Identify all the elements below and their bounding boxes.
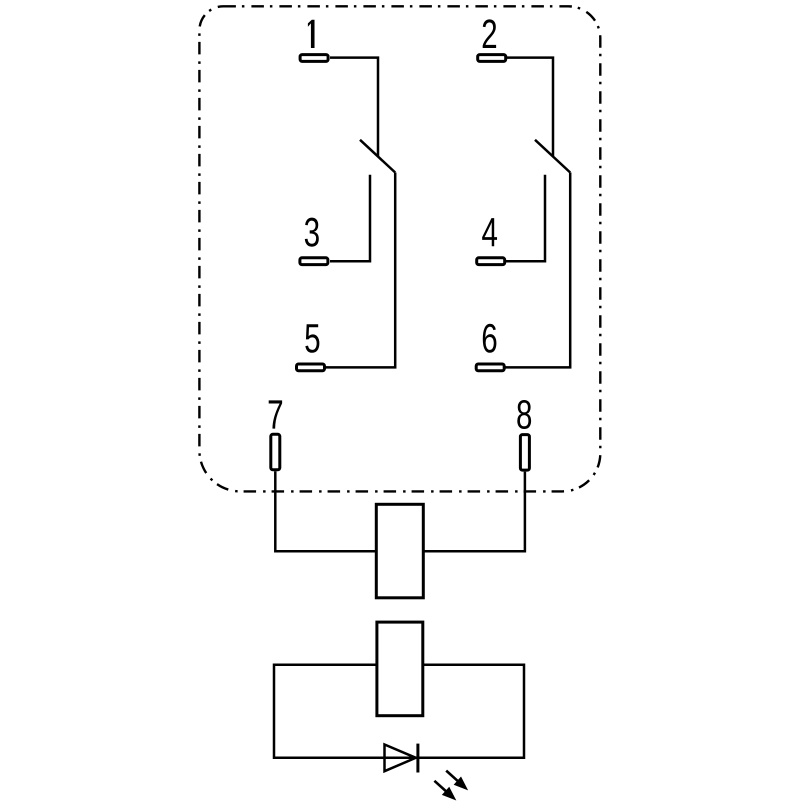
pin label 5 — [305, 324, 319, 353]
terminal 2 — [478, 55, 506, 62]
terminal 7 (coil pin) — [271, 434, 280, 470]
pin label 3 — [305, 218, 319, 247]
terminal 3 — [300, 258, 328, 265]
wire arm to terminal 5 — [326, 173, 395, 368]
pin label 4 — [482, 218, 497, 246]
terminal 5 — [297, 364, 325, 371]
wire pin1 to contact pivot — [330, 58, 378, 156]
indicator module box — [377, 622, 423, 716]
switch arm pole A — [360, 140, 395, 173]
wire loop with LED — [274, 665, 524, 758]
pin label 6 — [483, 324, 497, 353]
pin label 8 — [517, 400, 531, 429]
wire pin7 to coil — [275, 471, 376, 551]
coil K1 — [376, 504, 423, 598]
LED cathode bar — [416, 744, 419, 773]
LED D1 triangle — [385, 745, 416, 772]
LED emission arrow 2 — [431, 777, 460, 801]
wire NO contact to terminal 4 — [505, 175, 545, 261]
terminal 1 — [300, 55, 328, 62]
switch arm pole B — [535, 140, 570, 173]
pin label 1 — [308, 20, 315, 48]
pin label 2 — [483, 19, 496, 48]
terminal 6 — [476, 364, 504, 371]
terminal 8 (coil pin) — [520, 435, 529, 471]
LED emission arrow 1 — [443, 767, 472, 795]
wire pin8 to coil — [423, 472, 525, 552]
relay body outline (dash-dot rounded box) — [199, 6, 600, 491]
terminal 4 — [477, 258, 505, 265]
wire pin2 to contact pivot — [506, 58, 553, 156]
wire arm to terminal 6 — [505, 173, 571, 368]
wire NO contact to terminal 3 — [330, 175, 370, 261]
pin label 7 — [269, 400, 282, 428]
